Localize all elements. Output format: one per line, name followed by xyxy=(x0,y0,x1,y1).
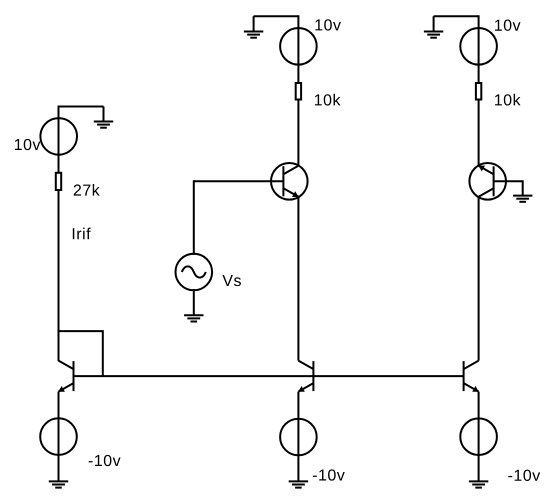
label -10v (V4) xyxy=(89,455,121,466)
wire V3 top xyxy=(434,15,479,17)
transistor Q4 (mirror output, middle) xyxy=(298,361,313,392)
source Vs (AC) xyxy=(176,254,213,291)
wire Q1 emitter to V4 xyxy=(58,392,60,482)
label 10v (V2) xyxy=(315,19,341,30)
ground G1 (top left) xyxy=(94,107,113,128)
wire base bus Q1-Q4-Q5 xyxy=(74,375,464,377)
label 27k (R1) xyxy=(74,184,100,196)
wire Q1 collector-base loop xyxy=(59,331,103,376)
ground G6 (bottom middle) xyxy=(289,481,308,487)
label 10v (V1) xyxy=(15,139,41,150)
wire Vs to ground xyxy=(193,289,195,315)
wire Vs vertical xyxy=(193,180,195,255)
label -10v (V5) xyxy=(313,469,345,480)
current source V5 -10v xyxy=(280,419,317,456)
wire V2 top xyxy=(254,15,299,17)
resistor R3 10k xyxy=(476,83,481,100)
wire Q2 emitter to Q4 collector xyxy=(297,197,299,361)
wire V2 vertical xyxy=(297,15,299,83)
wire R2 to Q2 collector xyxy=(297,100,299,166)
ground G4 (bottom left) xyxy=(49,481,68,487)
voltage source V3 10v xyxy=(460,28,497,65)
current source V6 -10v xyxy=(460,418,497,455)
transistor Q1 (mirror reference) xyxy=(58,361,73,392)
voltage source V1 10v xyxy=(40,118,77,155)
label 10v (V3) xyxy=(495,20,521,31)
resistor R2 10k xyxy=(296,83,301,100)
ground G3 (top right) xyxy=(424,16,443,38)
ground G2 (top middle) xyxy=(244,16,263,38)
resistor R1 27k xyxy=(56,173,61,190)
wire Vs to Q2 base xyxy=(194,180,284,182)
wire R3 to Q3 emitter xyxy=(478,100,480,166)
wire Q4 emitter to V5 xyxy=(297,392,299,482)
label Vs xyxy=(222,275,241,286)
wire Q5 emitter to V6 xyxy=(478,392,480,482)
wire Irif (R1 to Q1 collector) xyxy=(58,190,60,361)
current source V4 -10v xyxy=(40,418,77,455)
wire V1 top to ground xyxy=(59,106,104,108)
label Irif net xyxy=(73,228,91,240)
label -10v (V6) xyxy=(508,470,540,481)
voltage source V2 10v xyxy=(280,28,317,65)
ground G8 (bottom right) xyxy=(469,481,488,487)
transistor Q2 (diff pair left) xyxy=(271,163,308,200)
transistor Q5 (mirror output, right) xyxy=(464,361,479,392)
ground G5 (below Vs) xyxy=(184,315,203,321)
transistor Q3 (diff pair right) xyxy=(469,163,506,200)
label 10k (R3) xyxy=(495,94,521,106)
label 10k (R2) xyxy=(315,94,341,106)
wire Q3 base to ground xyxy=(494,181,523,195)
ground G7 (Q3 base) xyxy=(513,196,532,202)
wire V1 vertical xyxy=(58,106,60,173)
wire V3 vertical xyxy=(478,15,480,83)
wire Q3 collector to Q5 collector xyxy=(478,197,480,361)
